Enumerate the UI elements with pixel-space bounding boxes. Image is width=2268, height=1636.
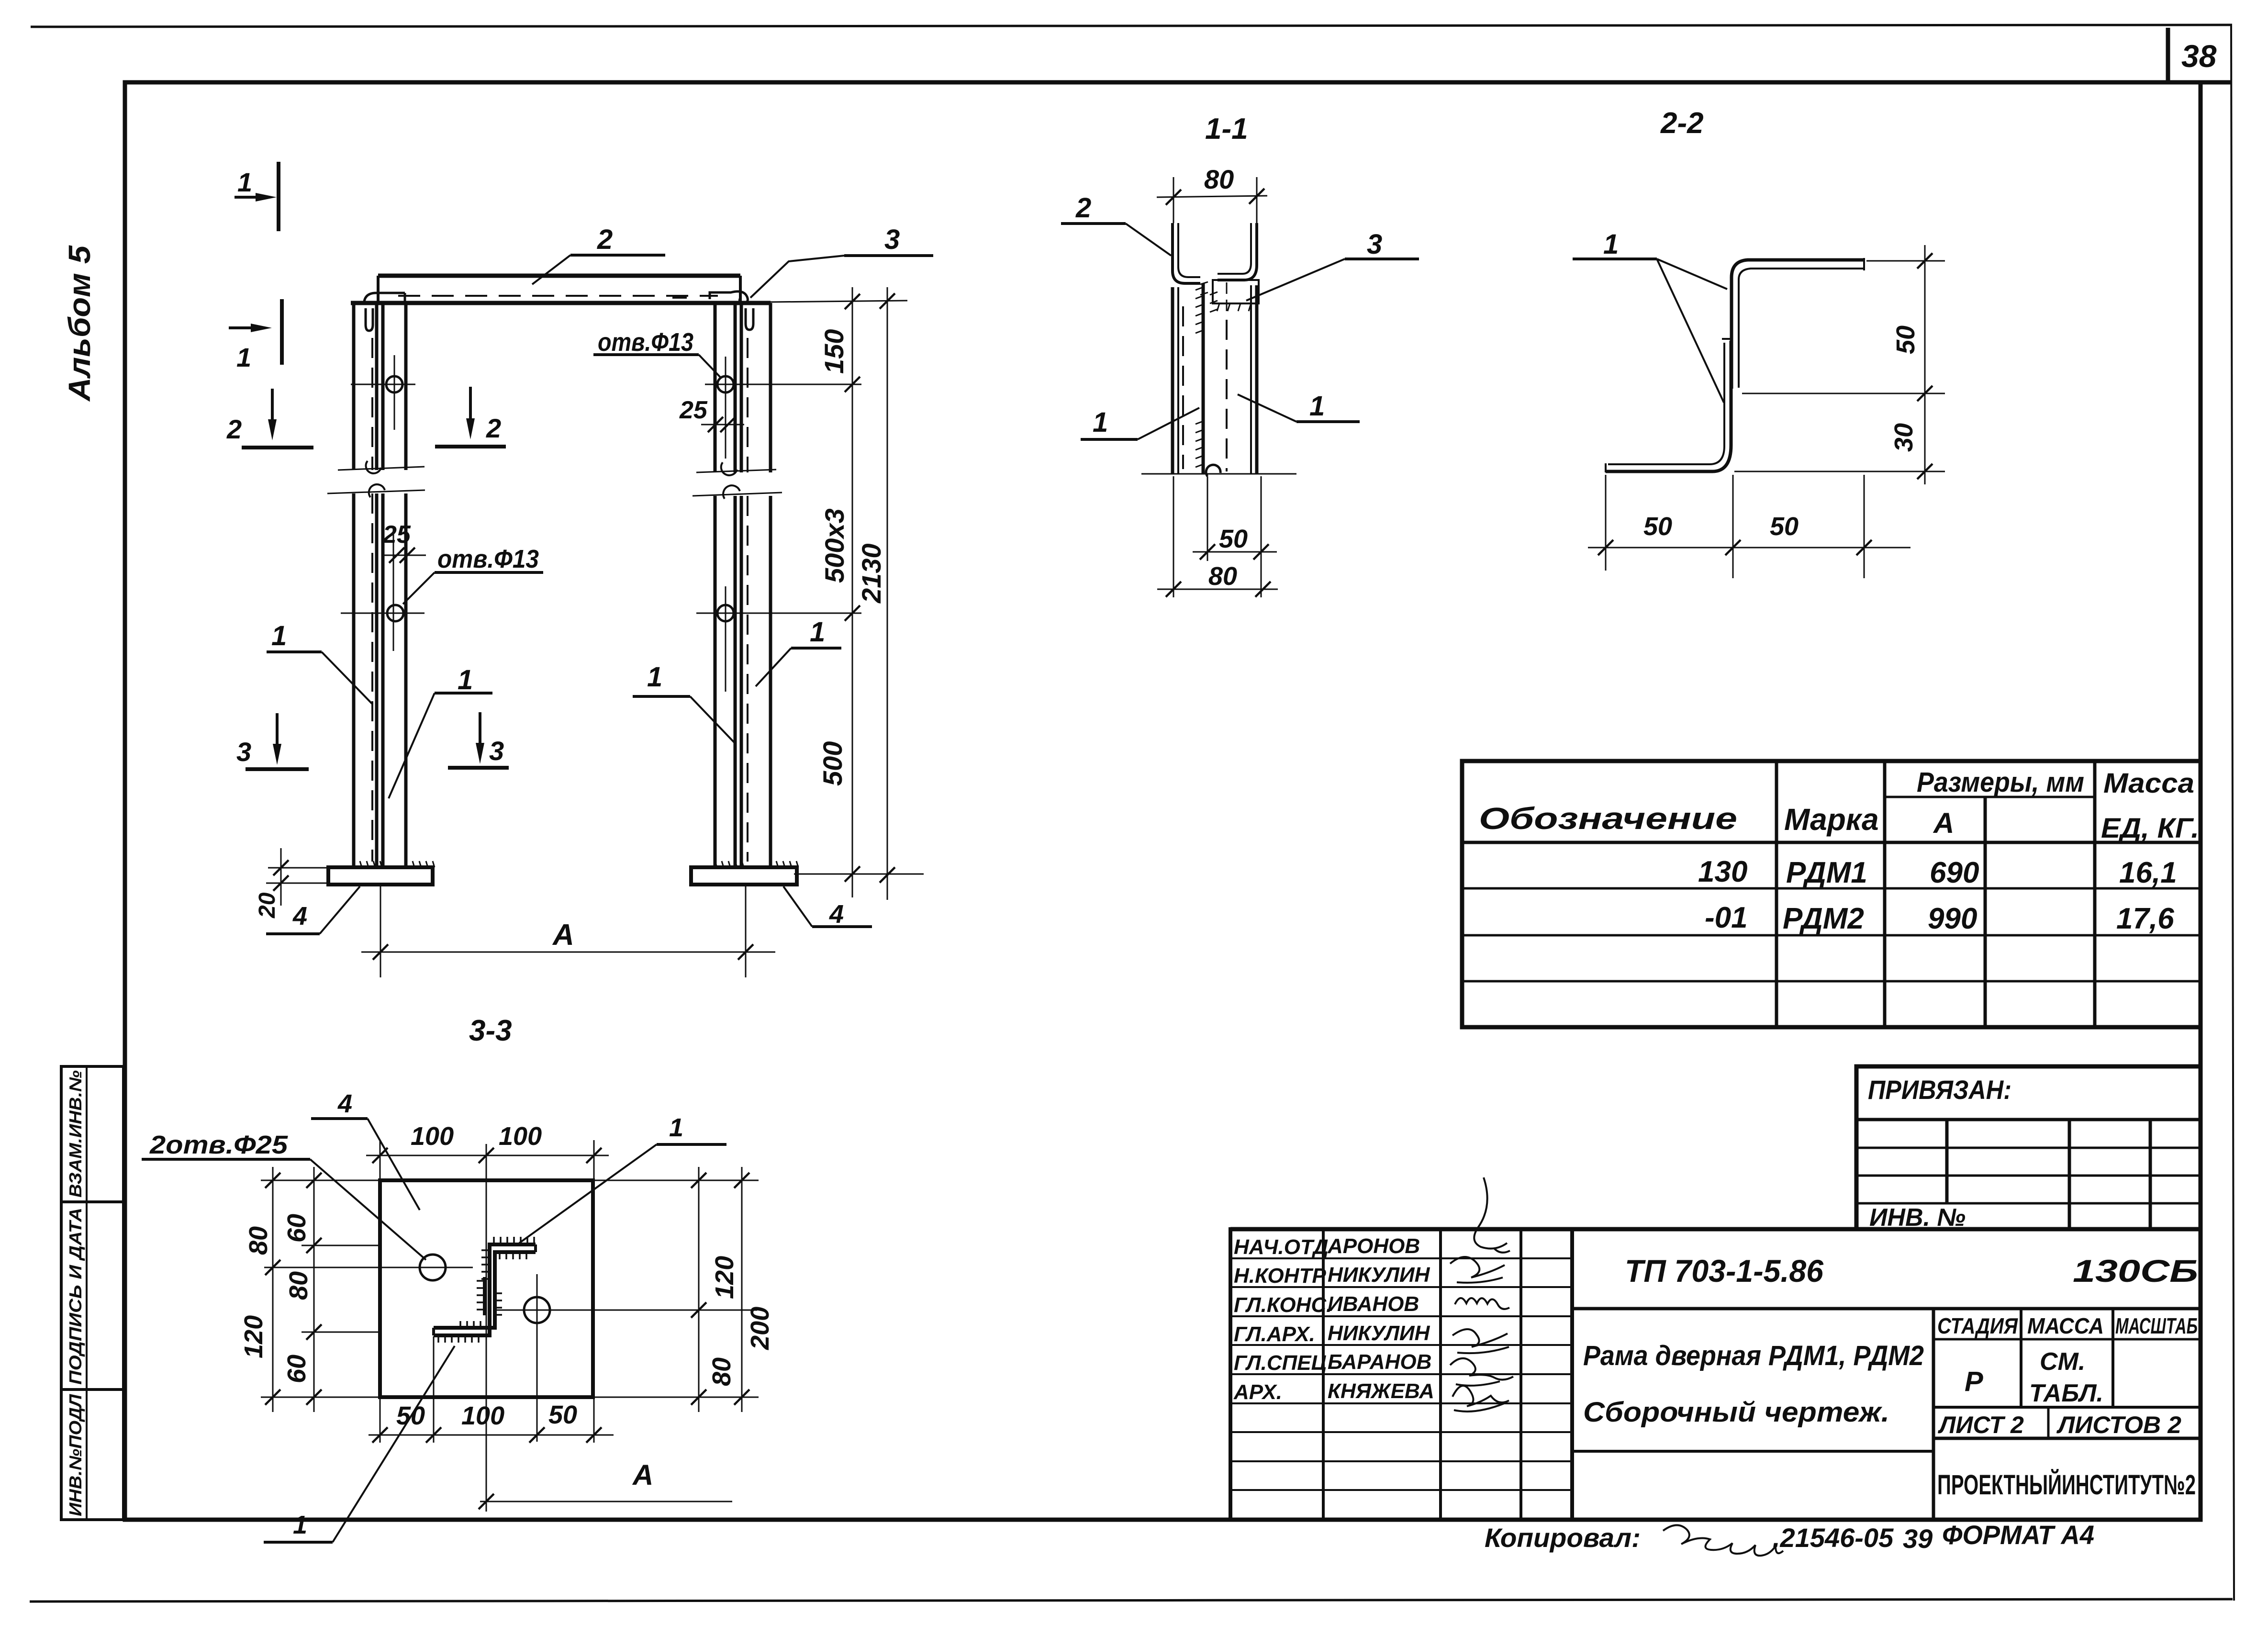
svg-text:100: 100 — [461, 1401, 504, 1430]
svg-text:РДМ1: РДМ1 — [1786, 856, 1867, 889]
bottom break line section 1-1 — [1141, 473, 1296, 475]
svg-text:20: 20 — [255, 892, 280, 919]
svg-text:МАССА: МАССА — [2027, 1313, 2104, 1338]
svg-text:РДМ2: РДМ2 — [1783, 902, 1864, 935]
svg-text:1: 1 — [458, 664, 473, 695]
svg-text:Р: Р — [1965, 1366, 1983, 1397]
Z profile lower web and bottom flange — [1606, 341, 1731, 471]
right dim line 200 — [741, 1167, 743, 1412]
extension head row — [771, 301, 907, 302]
header channel flange left in section — [1173, 223, 1200, 283]
svg-text:100: 100 — [499, 1122, 542, 1151]
svg-text:2: 2 — [226, 414, 242, 444]
page bottom trim line — [30, 1599, 2233, 1602]
weld ticks right plate — [715, 861, 798, 867]
ticks on chain dim line — [845, 294, 860, 309]
svg-text:50: 50 — [548, 1401, 577, 1429]
svg-text:3: 3 — [1367, 229, 1382, 260]
section marker 2 left — [226, 389, 313, 448]
hole row line lower — [494, 1310, 757, 1311]
svg-text:ГЛ.АРХ.: ГЛ.АРХ. — [1234, 1322, 1315, 1346]
left outer dim line 80 120 — [272, 1167, 274, 1412]
svg-text:150: 150 — [819, 329, 849, 374]
dim 80 top of section 1-1 — [1157, 196, 1267, 197]
hole row line upper — [264, 1267, 473, 1268]
svg-text:1: 1 — [1309, 391, 1325, 422]
kopiroval signature — [1663, 1525, 1783, 1556]
anchor hole upper — [420, 1255, 446, 1280]
page top trim line — [31, 25, 2232, 27]
svg-text:130: 130 — [1698, 855, 1747, 888]
svg-text:Марка: Марка — [1784, 802, 1879, 837]
svg-text:60: 60 — [282, 1214, 311, 1243]
svg-text:4: 4 — [337, 1089, 352, 1118]
left margin stamp: INV.N PODL box — [61, 1389, 123, 1520]
svg-text:БАРАНОВ: БАРАНОВ — [1328, 1350, 1431, 1374]
anchor hole lower — [524, 1297, 550, 1323]
left extension rows — [261, 1180, 380, 1181]
weld ticks left plate — [353, 861, 435, 867]
svg-text:2: 2 — [1075, 192, 1091, 224]
section marker 1 upper — [235, 162, 279, 231]
svg-text:НИКУЛИН: НИКУЛИН — [1328, 1263, 1430, 1287]
base plate left — [328, 867, 433, 885]
weld comb lower — [1195, 421, 1203, 467]
svg-text:КНЯЖЕВА: КНЯЖЕВА — [1328, 1379, 1434, 1403]
svg-text:ТАБЛ.: ТАБЛ. — [2029, 1379, 2103, 1407]
svg-text:ЕД, КГ.: ЕД, КГ. — [2101, 813, 2199, 844]
svg-text:4: 4 — [829, 900, 844, 929]
signature table — [1230, 1229, 1572, 1520]
svg-text:А: А — [632, 1459, 653, 1491]
title block top edge — [1230, 1227, 2201, 1232]
sheet number box — [2166, 28, 2170, 82]
svg-text:2: 2 — [597, 224, 613, 255]
svg-text:500: 500 — [817, 741, 848, 786]
svg-text:4: 4 — [292, 902, 307, 930]
svg-text:-01: -01 — [1705, 901, 1748, 934]
svg-text:Масса: Масса — [2103, 768, 2194, 799]
right post lines — [715, 303, 771, 867]
right dim line 120 80 — [698, 1167, 700, 1412]
svg-text:2130: 2130 — [856, 543, 886, 604]
svg-text:80: 80 — [1208, 562, 1237, 591]
post Z profile in plan — [434, 1244, 536, 1335]
svg-text:25: 25 — [382, 521, 411, 549]
svg-text:отв.Ф13: отв.Ф13 — [437, 545, 539, 573]
svg-text:ПОДПИСЬ И ДАТА: ПОДПИСЬ И ДАТА — [66, 1208, 85, 1385]
clip bracket left corner — [364, 293, 405, 302]
stadiya massa masshtab grid — [1933, 1309, 2201, 1438]
svg-text:3: 3 — [489, 736, 504, 766]
svg-text:АРХ.: АРХ. — [1233, 1380, 1282, 1404]
dim 25 middle left — [382, 555, 426, 556]
post rear wall in section 1-1 — [1250, 285, 1252, 474]
svg-text:3-3: 3-3 — [469, 1014, 512, 1047]
left post lines — [354, 303, 406, 867]
clip bracket right corner — [710, 291, 748, 303]
svg-text:60: 60 — [282, 1355, 311, 1383]
plate vertical centerline — [486, 1144, 487, 1512]
svg-text:80: 80 — [244, 1226, 273, 1255]
svg-text:Сборочный чертеж.: Сборочный чертеж. — [1583, 1397, 1889, 1428]
svg-text:3: 3 — [236, 737, 251, 767]
svg-text:120: 120 — [710, 1256, 739, 1299]
head member top bar — [378, 274, 740, 278]
svg-text:1-1: 1-1 — [1205, 112, 1248, 146]
section marker 1 lower — [229, 299, 282, 372]
section marker 3 left — [236, 713, 309, 769]
hole right middle — [717, 605, 734, 621]
svg-text:50: 50 — [1770, 512, 1799, 541]
bottom dims 50 100 50 — [380, 1397, 381, 1443]
svg-text:30: 30 — [1889, 423, 1918, 452]
svg-text:Рама дверная РДМ1, РДМ2: Рама дверная РДМ1, РДМ2 — [1583, 1340, 1924, 1371]
svg-text:Копировал:: Копировал: — [1485, 1523, 1641, 1553]
bottom dims 50 50 of section 2-2 — [1605, 475, 1607, 571]
svg-text:.21546-05: .21546-05 — [1773, 1523, 1894, 1553]
svg-text:16,1: 16,1 — [2119, 856, 2177, 889]
svg-text:80: 80 — [284, 1271, 313, 1300]
clip bracket 3 in section — [1213, 280, 1259, 303]
Z profile top flange — [1732, 260, 1864, 389]
svg-text:Н.КОНТР: Н.КОНТР — [1234, 1264, 1326, 1288]
base plate outline — [380, 1180, 593, 1397]
svg-text:50: 50 — [396, 1401, 425, 1430]
svg-text:130СБ: 130СБ — [2073, 1253, 2198, 1289]
svg-text:200: 200 — [746, 1307, 774, 1350]
right post hidden line — [747, 338, 749, 862]
svg-text:1: 1 — [293, 1511, 307, 1539]
svg-text:100: 100 — [411, 1122, 454, 1151]
svg-text:1: 1 — [1603, 229, 1619, 260]
svg-text:Обозначение: Обозначение — [1479, 801, 1737, 836]
top dims 100 100 — [380, 1140, 381, 1180]
break lines right post — [696, 470, 776, 472]
svg-text:ГЛ.КОНС.: ГЛ.КОНС. — [1234, 1293, 1332, 1317]
break lines left post — [338, 467, 425, 470]
right extension rows — [593, 1180, 759, 1181]
svg-text:ЛИСТ 2: ЛИСТ 2 — [1938, 1412, 2024, 1438]
svg-text:СТАДИЯ: СТАДИЯ — [1937, 1313, 2018, 1338]
svg-text:1: 1 — [1093, 407, 1108, 438]
right dimension line overall — [887, 287, 888, 900]
extension base row — [794, 874, 924, 875]
header channel flange right in section — [1218, 223, 1257, 280]
left margin stamp: PODPIS I DATA box — [61, 1202, 123, 1389]
svg-text:1: 1 — [271, 620, 287, 651]
svg-text:120: 120 — [239, 1315, 268, 1358]
head hidden edge dashed — [398, 295, 718, 297]
svg-text:50: 50 — [1643, 512, 1672, 541]
svg-text:Альбом 5: Альбом 5 — [62, 245, 97, 402]
signature table texts — [1233, 1234, 1434, 1404]
svg-text:НАЧ.ОТД: НАЧ.ОТД — [1234, 1235, 1329, 1259]
svg-text:1: 1 — [237, 167, 252, 197]
page right trim line — [2231, 26, 2234, 1601]
svg-text:АРОНОВ: АРОНОВ — [1327, 1234, 1420, 1258]
svg-text:Размеры, мм: Размеры, мм — [1917, 767, 2084, 798]
post front wall in section 1-1 — [1171, 287, 1174, 474]
svg-text:ПРОЕКТНЫЙИНСТИТУТ№2: ПРОЕКТНЫЙИНСТИТУТ№2 — [1937, 1469, 2196, 1501]
title block main divider — [1570, 1229, 1574, 1520]
weld combs on Z profile — [494, 1237, 534, 1244]
svg-text:2: 2 — [486, 413, 501, 443]
svg-text:1: 1 — [647, 661, 662, 693]
svg-text:ВЗАМ.ИНВ.№: ВЗАМ.ИНВ.№ — [66, 1070, 85, 1198]
svg-text:СМ.: СМ. — [2040, 1348, 2085, 1376]
weld comb upper — [1195, 287, 1218, 333]
hole left top — [386, 376, 402, 392]
hidden lines in section 1-1 — [1182, 306, 1184, 469]
svg-text:2отв.Ф25: 2отв.Ф25 — [149, 1131, 288, 1159]
svg-text:1: 1 — [810, 616, 825, 648]
svg-text:500х3: 500х3 — [819, 508, 849, 583]
svg-text:17,6: 17,6 — [2116, 902, 2174, 935]
svg-text:50: 50 — [1219, 525, 1248, 553]
dim A plate — [480, 1501, 732, 1502]
svg-text:А: А — [552, 919, 574, 952]
svg-text:990: 990 — [1928, 902, 1977, 935]
svg-text:А: А — [1933, 807, 1954, 839]
svg-text:80: 80 — [1204, 164, 1234, 194]
base plate right — [691, 867, 797, 885]
hole right top — [717, 376, 734, 392]
svg-text:ИНВ.№ПОДЛ: ИНВ.№ПОДЛ — [66, 1394, 85, 1516]
svg-text:38: 38 — [2181, 38, 2217, 74]
section marker 2 middle — [435, 387, 506, 447]
svg-text:1: 1 — [669, 1113, 683, 1142]
svg-text:50: 50 — [1891, 325, 1920, 354]
svg-text:ГЛ.СПЕЦ: ГЛ.СПЕЦ — [1234, 1351, 1327, 1375]
dim 25 top right — [701, 424, 744, 426]
svg-text:ПРИВЯЗАН:: ПРИВЯЗАН: — [1868, 1075, 2011, 1105]
privyazan box — [1856, 1066, 2201, 1229]
frame head line — [351, 301, 771, 305]
svg-text:39: 39 — [1903, 1524, 1933, 1554]
left inner dim line 60 80 60 — [313, 1167, 315, 1412]
svg-text:1: 1 — [236, 342, 251, 372]
parts table — [1462, 761, 2201, 1027]
svg-text:НИКУЛИН: НИКУЛИН — [1328, 1322, 1430, 1345]
signatures scribbles — [1450, 1177, 1513, 1412]
dim A front view — [380, 886, 381, 977]
svg-text:ИВАНОВ: ИВАНОВ — [1328, 1292, 1419, 1316]
right dims 50 and 30 of section 2-2 — [1866, 260, 1945, 262]
svg-text:80: 80 — [707, 1357, 736, 1386]
svg-text:690: 690 — [1930, 856, 1979, 889]
svg-text:25: 25 — [679, 396, 708, 424]
right dimension line chain — [852, 287, 853, 897]
section marker 3 middle — [448, 712, 509, 768]
svg-text:МАСШТАБ: МАСШТАБ — [2115, 1313, 2198, 1338]
svg-text:ФОРМАТ А4: ФОРМАТ А4 — [1942, 1520, 2094, 1550]
left margin stamp: VZAM.INV box — [61, 1066, 123, 1202]
svg-text:ТП 703-1-5.86: ТП 703-1-5.86 — [1625, 1253, 1824, 1289]
svg-text:2-2: 2-2 — [1660, 107, 1704, 140]
post middle wall in section 1-1 — [1202, 283, 1205, 474]
left post hidden line — [371, 338, 373, 862]
svg-text:ЛИСТОВ 2: ЛИСТОВ 2 — [2056, 1412, 2181, 1438]
dim 20 plate thickness — [268, 867, 328, 869]
svg-text:3: 3 — [884, 224, 900, 255]
hole left middle — [387, 605, 403, 621]
svg-text:отв.Ф13: отв.Ф13 — [598, 328, 693, 357]
bottom dims 50 and 80 of section 1-1 — [1207, 476, 1208, 561]
